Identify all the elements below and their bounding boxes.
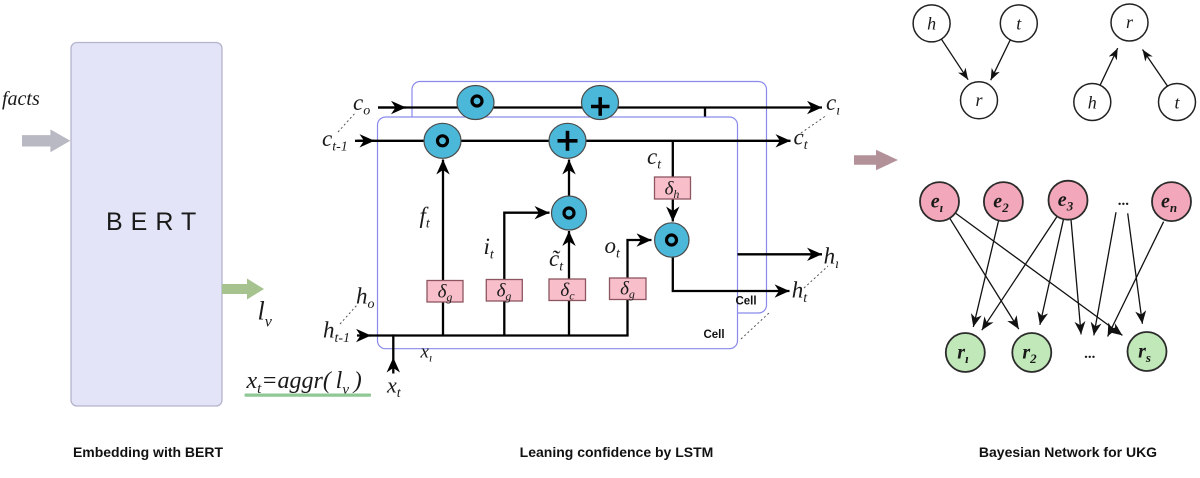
wire h_t-1 entry arrow — [357, 334, 371, 336]
wire dotted h_t to h_1 — [804, 266, 828, 288]
wire c_o entry arrow — [378, 106, 406, 108]
gate sigma_g box 1 — [427, 281, 463, 303]
wire middle o to plus arrow — [568, 160, 570, 198]
LSTM back cell box — [412, 82, 767, 314]
wire h to r arrow — [941, 39, 968, 80]
wire delta_h to o arrow — [672, 198, 674, 222]
wire e_1 to r_s — [955, 213, 1122, 335]
wire e_3 to dots — [1071, 220, 1081, 335]
svg-text:lv: lv — [258, 297, 273, 331]
svg-text:ho: ho — [356, 284, 375, 313]
wire h bottom line — [370, 334, 629, 336]
node e_n circle — [1152, 182, 1191, 221]
svg-text:facts: facts — [2, 88, 40, 110]
svg-text:Leaning confidence by LSTM: Leaning confidence by LSTM — [520, 444, 714, 460]
wire e_n to r_s — [1108, 222, 1164, 337]
wire green output arrow — [222, 279, 264, 300]
svg-text:hı: hı — [824, 244, 840, 273]
wire c_o line — [378, 106, 822, 108]
wire x_t continuation — [392, 334, 394, 357]
wire dotted h_t-1 to h_o — [340, 305, 357, 324]
node h circle left-graph — [913, 5, 950, 42]
gate sigma_g box 2 — [486, 280, 522, 302]
wire t to r arrow — [991, 39, 1011, 80]
node h circle right-graph — [1074, 84, 1111, 121]
wire e_3 to r_2 — [1040, 219, 1064, 325]
wire e_3 to r_1 — [982, 216, 1057, 330]
svg-text:...: ... — [1118, 193, 1130, 209]
op hadamard circle right — [655, 223, 689, 257]
op plus circle on c_t-1 — [549, 123, 586, 158]
node r circle left-graph — [961, 82, 998, 119]
svg-text:BERT: BERT — [106, 208, 204, 236]
svg-text:Bayesian Network for UKG: Bayesian Network for UKG — [979, 444, 1157, 460]
wire c~ riser — [568, 231, 570, 336]
node t circle left-graph — [1000, 5, 1037, 42]
op plus circle on c_o — [582, 86, 619, 120]
node t circle right-graph — [1159, 84, 1196, 121]
gate sigma_h box — [655, 177, 691, 199]
svg-text:Embedding with BERT: Embedding with BERT — [73, 444, 224, 460]
svg-text:r: r — [975, 90, 983, 110]
node e_3 circle — [1049, 181, 1088, 220]
svg-text:r: r — [1126, 12, 1134, 32]
op hadamard circle on c_t-1 — [424, 123, 461, 158]
wire dots to r_s — [1128, 213, 1143, 323]
wire o_t riser — [628, 240, 652, 336]
gate sigma_g box 4 — [610, 278, 647, 300]
wire dots to dots — [1094, 212, 1116, 335]
svg-text:...: ... — [1084, 346, 1096, 362]
wire h_1 output — [738, 253, 823, 255]
wire dotted below cell — [741, 313, 769, 339]
wire c_t-1 entry arrow — [355, 140, 375, 142]
wire c_t branch down — [672, 141, 674, 178]
svg-text:ht: ht — [792, 278, 809, 307]
wire back-cell stub — [704, 108, 706, 117]
wire e_1 to r_2 — [950, 218, 1019, 329]
op hadamard circle on c_o — [457, 86, 494, 120]
node e_1 circle — [920, 182, 959, 221]
wire e_2 to r_1 — [973, 221, 998, 328]
svg-text:Cell: Cell — [703, 329, 724, 341]
wire c_t-1 line — [358, 140, 791, 142]
node e_2 circle — [984, 182, 1023, 221]
svg-text:cı: cı — [826, 90, 840, 119]
wire t to r arrow right-graph — [1143, 50, 1168, 87]
node r circle right-graph — [1111, 4, 1148, 41]
svg-text:co: co — [353, 90, 370, 119]
svg-text:ct: ct — [794, 125, 809, 154]
svg-text:h: h — [1088, 93, 1097, 113]
svg-text:ct-1: ct-1 — [322, 126, 348, 155]
svg-text:Cell: Cell — [735, 296, 756, 308]
svg-text:xt: xt — [386, 373, 402, 402]
wire x_t input arrow — [392, 358, 394, 374]
wire i_t riser — [504, 213, 549, 336]
wire mauve transition arrow — [854, 150, 898, 170]
svg-text:h: h — [927, 14, 936, 34]
wire green underline — [245, 394, 372, 397]
wire gray input arrow — [22, 129, 70, 152]
LSTM front cell box — [378, 117, 738, 349]
wire dotted c_t to c_1 — [801, 115, 827, 133]
node r_2 circle — [1012, 333, 1051, 372]
svg-text:ht-1: ht-1 — [323, 318, 350, 347]
wire h to r arrow right-graph — [1100, 48, 1118, 86]
node r_s circle — [1128, 332, 1167, 371]
wire dotted c_t-1 to c_o — [338, 112, 356, 132]
wire f_t riser — [442, 160, 444, 336]
node r_1 circle — [946, 333, 985, 372]
wire h_t output — [673, 257, 790, 292]
op hadamard circle middle — [552, 196, 587, 230]
gate sigma_c box 3 — [549, 279, 586, 301]
BERT block — [71, 43, 222, 407]
